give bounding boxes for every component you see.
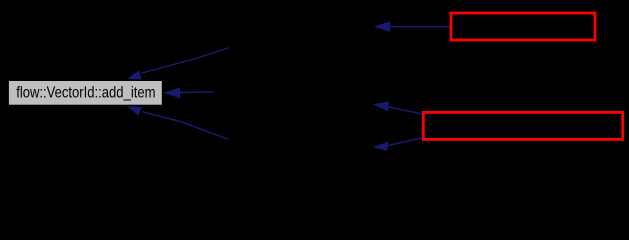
svg-text:flow::VectorId::add_item: flow::VectorId::add_item bbox=[16, 85, 155, 102]
